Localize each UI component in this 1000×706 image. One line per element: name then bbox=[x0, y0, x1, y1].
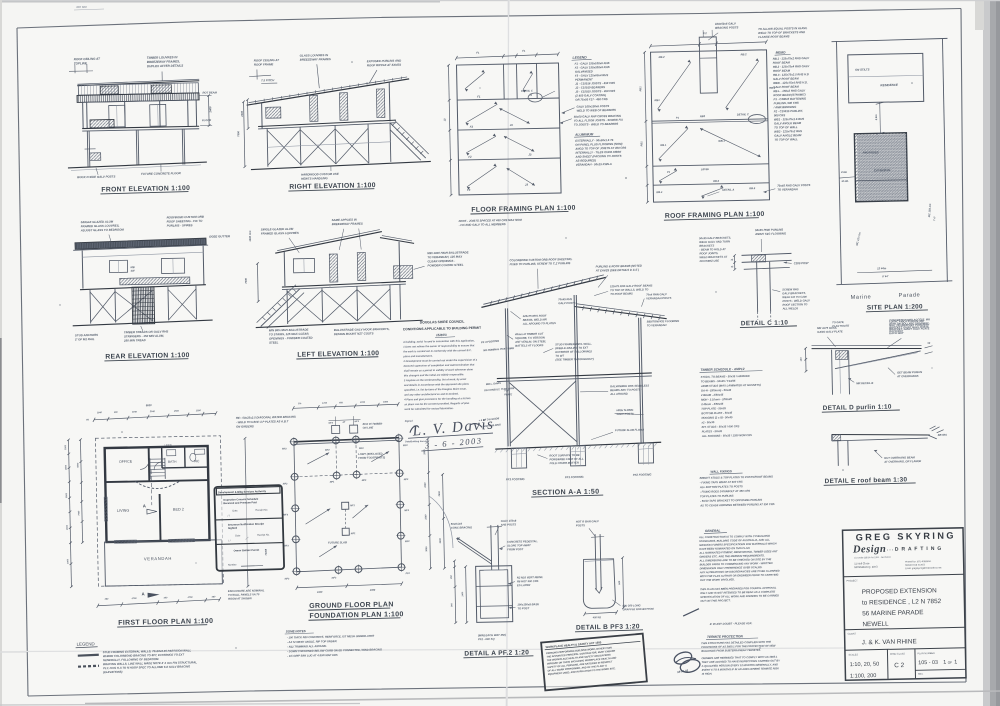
svg-text:F1: F1 bbox=[477, 95, 481, 99]
svg-text:DETAIL C: DETAIL C bbox=[737, 112, 749, 116]
svg-text:2400: 2400 bbox=[240, 110, 244, 117]
svg-text:BEAMS ARC TO POSTS -: BEAMS ARC TO POSTS - bbox=[610, 387, 642, 392]
svg-text:ROOF SECTION TO: ROOF SECTION TO bbox=[782, 302, 808, 307]
floor framing dimension line top bbox=[456, 54, 558, 58]
left elevation annotations bbox=[243, 215, 471, 360]
svg-text:AT OVERHANG, GR FLANGE: AT OVERHANG, GR FLANGE bbox=[883, 459, 921, 464]
svg-text:4750: 4750 bbox=[187, 596, 194, 599]
svg-text:F2: F2 bbox=[468, 155, 472, 159]
svg-text:ON STILTS: ON STILTS bbox=[855, 67, 870, 71]
svg-text:IS HIGH.: IS HIGH. bbox=[702, 672, 713, 676]
svg-text:MOSSMAN Q. 4873: MOSSMAN Q. 4873 bbox=[854, 565, 878, 569]
rear elevation walls bbox=[81, 251, 84, 289]
svg-text:RB1: RB1 bbox=[654, 98, 660, 102]
svg-text:MR DETAIL B: MR DETAIL B bbox=[856, 381, 873, 385]
svg-text:DUPLEX AFTER DETAILS: DUPLEX AFTER DETAILS bbox=[147, 64, 183, 69]
roof framing top projecting bay bbox=[699, 37, 717, 93]
scan specks bbox=[351, 61, 353, 63]
svg-text:TO BEAMS - 50x45 / F14/4: TO BEAMS - 50x45 / F14/45 bbox=[701, 379, 736, 384]
rear elevation annotations bbox=[71, 214, 234, 361]
fold crease vertical bbox=[507, 0, 509, 706]
svg-text:2.45mm - 4/50x45: 2.45mm - 4/50x45 bbox=[700, 402, 724, 406]
first floor plan curved wall bbox=[135, 481, 180, 489]
svg-text:WELD BRACKETS AT: WELD BRACKETS AT bbox=[699, 255, 727, 260]
svg-text:MF3: MF3 bbox=[362, 480, 367, 482]
detail A diagonal brace bbox=[457, 537, 491, 562]
left elevation skillion roof bbox=[275, 232, 382, 254]
svg-text:BATH: BATH bbox=[168, 460, 177, 464]
svg-text:10 MIL: 10 MIL bbox=[841, 180, 849, 183]
svg-text:REV.: REV. bbox=[918, 673, 924, 676]
svg-text:MF3: MF3 bbox=[283, 514, 288, 516]
detail D drawing bbox=[800, 319, 934, 413]
svg-text:1500: 1500 bbox=[65, 444, 67, 450]
svg-text:GALV POSTS: GALV POSTS bbox=[558, 301, 575, 305]
svg-text:SCALES: SCALES bbox=[848, 653, 858, 656]
ground floor plan bottom dims bbox=[297, 584, 402, 588]
ground floor plan leader arrows bbox=[307, 453, 329, 464]
detail A post bbox=[490, 525, 493, 570]
bottom paper edge shadow bbox=[85, 691, 1000, 704]
svg-text:PROPOSED: PROPOSED bbox=[863, 150, 879, 154]
svg-text:BREEZEWAY FRAMES: BREEZEWAY FRAMES bbox=[300, 57, 331, 62]
svg-text:3500: 3500 bbox=[65, 464, 67, 470]
left elevation upper walls bbox=[283, 252, 286, 286]
svg-text:FLOOR: FLOOR bbox=[202, 118, 211, 122]
svg-text:RB.1: RB.1 bbox=[660, 143, 667, 147]
svg-text:8600: 8600 bbox=[146, 403, 152, 407]
svg-text:WELD GALV AND TURN: WELD GALV AND TURN bbox=[699, 239, 730, 244]
svg-text:4000: 4000 bbox=[66, 524, 69, 531]
front elevation upper walls bbox=[82, 102, 85, 128]
svg-text:5.6m: 5.6m bbox=[874, 114, 878, 121]
svg-text:J. & K. VAN RHINE: J. & K. VAN RHINE bbox=[862, 638, 917, 646]
svg-text:CONC BRACING: CONC BRACING bbox=[451, 525, 472, 529]
svg-text:1900: 1900 bbox=[67, 558, 69, 564]
right elevation stair bbox=[390, 122, 426, 159]
svg-text:BED 2: BED 2 bbox=[173, 508, 184, 512]
svg-text:GENERAL: GENERAL bbox=[705, 529, 721, 533]
timber schedule bbox=[696, 366, 774, 507]
svg-text:A: A bbox=[143, 503, 146, 508]
svg-text:ROOF FRAME: ROOF FRAME bbox=[254, 62, 274, 66]
svg-text:2700: 2700 bbox=[359, 402, 366, 404]
svg-text:PF1 FOOTING: PF1 FOOTING bbox=[565, 475, 585, 479]
svg-text:MF3: MF3 bbox=[404, 510, 409, 512]
svg-text:7500: 7500 bbox=[236, 130, 240, 136]
svg-text:N2 N16 VERT REINF,: N2 N16 VERT REINF, bbox=[517, 575, 544, 580]
svg-text:Receipt No.: Receipt No. bbox=[255, 508, 268, 511]
svg-text:ROOF RIPPLE AT EAVES: ROOF RIPPLE AT EAVES bbox=[367, 63, 401, 68]
roof framing dim ticks bbox=[650, 42, 766, 46]
svg-text:VERANDAH - 50x19 KWILA: VERANDAH - 50x19 KWILA bbox=[576, 162, 612, 167]
fold crease vertical on sheet bbox=[507, 14, 509, 700]
rear elevation windows bbox=[109, 260, 127, 272]
front elevation louvre panels bbox=[100, 86, 118, 94]
svg-text:MGH - 3.10mm - 2/50x4: MGH - 3.10mm - 2/50x45 bbox=[701, 397, 732, 402]
svg-text:ROT BEAM: ROT BEAM bbox=[202, 90, 217, 94]
svg-text:TO TOP OF WALL: TO TOP OF WALL bbox=[774, 137, 798, 141]
svg-text:/ /: / / bbox=[228, 539, 231, 543]
front elevation roof band bbox=[77, 81, 199, 86]
ground floor plan centre posts bbox=[342, 502, 349, 509]
site plan bottom dim bbox=[857, 270, 932, 273]
roof framing internal arrows bbox=[657, 62, 692, 109]
detail B footing drawing bbox=[573, 518, 655, 632]
svg-text:INT. STUDS - 5: INT. STUDS - 50x35 / 600 CRS bbox=[702, 424, 740, 429]
svg-text:plans and manufactures.: plans and manufactures. bbox=[402, 355, 433, 359]
svg-text:1: 1 bbox=[954, 659, 957, 665]
rear elevation stair dark block bbox=[132, 287, 155, 324]
svg-text:DESIGN MOUNT NZT COSTS: DESIGN MOUNT NZT COSTS bbox=[334, 331, 374, 336]
first floor plan right dim line bbox=[245, 438, 248, 586]
svg-text:WB.1: WB.1 bbox=[718, 139, 725, 143]
svg-text:C200 POST: C200 POST bbox=[794, 261, 809, 265]
svg-text:STEEL: STEEL bbox=[269, 340, 279, 344]
svg-text:. . .: . . . bbox=[887, 546, 893, 551]
svg-text:ROOM AT SHOWN: ROOM AT SHOWN bbox=[228, 596, 252, 600]
svg-text:MF1: MF1 bbox=[330, 481, 335, 483]
svg-text:GANG GALV PLATE: GANG GALV PLATE bbox=[817, 329, 843, 334]
svg-text:ROOT SURFACE TO BE: ROOT SURFACE TO BE bbox=[549, 453, 580, 458]
right elevation ground line bbox=[251, 161, 431, 169]
left elevation right wing roof bbox=[380, 237, 414, 244]
detail C drawing bbox=[699, 227, 811, 328]
ground floor plan perimeter bbox=[294, 438, 399, 442]
svg-text:GA-H - (200mm) - 50x45: GA-H - (200mm) - 50x45 bbox=[701, 388, 732, 393]
svg-text:MF3: MF3 bbox=[284, 545, 289, 547]
svg-text:OR 75x50 F17 - 450 CRS: OR 75x50 F17 - 450 CRS bbox=[575, 97, 607, 102]
front elevation right dimension bbox=[200, 94, 212, 96]
svg-text:RB.5: RB.5 bbox=[749, 186, 756, 190]
svg-text:Signed: Signed bbox=[405, 420, 414, 423]
svg-text:A: A bbox=[142, 591, 145, 596]
right elevation skillion roof bbox=[246, 79, 409, 105]
svg-text:ALUMINIUM: ALUMINIUM bbox=[574, 132, 594, 136]
svg-text:NOGGINS (2 x 8) - 50x4: NOGGINS (2 x 8) - 50x45 bbox=[701, 415, 733, 420]
svg-text:POSTS - WELD GALV: POSTS - WELD GALV bbox=[782, 298, 810, 303]
svg-text:MF2: MF2 bbox=[325, 450, 330, 452]
svg-text:AT OVERHANGS: AT OVERHANGS bbox=[896, 374, 919, 378]
detail A dims bbox=[455, 561, 456, 623]
svg-text:J3: J3 bbox=[525, 183, 529, 187]
svg-text:125x75 RHS ROOF: 125x75 RHS ROOF bbox=[523, 314, 547, 318]
svg-text:TO WALL PANELS VA 70: TO WALL PANELS VA 70 bbox=[228, 592, 260, 597]
right elevation upper walls bbox=[261, 103, 264, 128]
svg-text:4750: 4750 bbox=[131, 597, 138, 600]
svg-text:MF2: MF2 bbox=[403, 445, 408, 447]
svg-text:GUT OVERHANG BEAM: GUT OVERHANG BEAM bbox=[884, 455, 915, 460]
svg-text:- BEAM TO HOLD AT: - BEAM TO HOLD AT bbox=[699, 247, 726, 252]
svg-text:450 SQ: 450 SQ bbox=[592, 616, 601, 619]
svg-text:- N12 TRIMMING ALL AROUND.: - N12 TRIMMING ALL AROUND. bbox=[287, 644, 327, 649]
top scan edge line bbox=[0, 0, 440, 3]
floor framing plan grid bbox=[441, 48, 576, 228]
svg-text:4W: 4W bbox=[130, 269, 136, 273]
svg-text:OFFICE: OFFICE bbox=[119, 460, 133, 464]
title block frame bbox=[843, 528, 966, 680]
detail D post bbox=[831, 350, 834, 395]
svg-text:BEAMS, WELD MR: BEAMS, WELD MR bbox=[523, 317, 547, 321]
svg-text:J1: J1 bbox=[510, 123, 514, 127]
svg-text:L'DRY (ENCLOSED: L'DRY (ENCLOSED bbox=[358, 452, 383, 456]
svg-text:Marine: Marine bbox=[851, 294, 872, 300]
svg-text:BRACKET, GIANT GALV PLATE: BRACKET, GIANT GALV PLATE bbox=[889, 326, 929, 331]
left elevation stair bbox=[260, 289, 301, 327]
svg-text:OUT ON THIS PROJECT.: OUT ON THIS PROJECT. bbox=[700, 598, 731, 603]
ground floor plan grid bbox=[280, 399, 447, 658]
svg-text:7500: 7500 bbox=[244, 277, 248, 283]
svg-text:PLATE: PLATE bbox=[504, 393, 512, 396]
first floor plan verandah bbox=[105, 540, 223, 586]
floor framing left dim bbox=[448, 65, 451, 195]
svg-text:4000: 4000 bbox=[369, 589, 376, 592]
svg-text:FOLD OTHER MATTER: FOLD OTHER MATTER bbox=[550, 461, 579, 466]
svg-text:MF2: MF2 bbox=[283, 483, 288, 485]
svg-text:TO VERANDAH: TO VERANDAH bbox=[647, 323, 667, 327]
svg-text:OUT THE WORK INVOLVED.: OUT THE WORK INVOLVED. bbox=[700, 577, 735, 582]
svg-text:WELD TO WEB OF BEARERS: WELD TO WEB OF BEARERS bbox=[577, 108, 616, 113]
svg-text:MF2: MF2 bbox=[405, 541, 410, 543]
svg-text:ALL AROUND: ALL AROUND bbox=[609, 392, 628, 396]
front elevation floor band bbox=[82, 126, 199, 128]
svg-text:POSTS: POSTS bbox=[576, 523, 585, 527]
svg-text:PF3 FOOTING: PF3 FOOTING bbox=[506, 477, 526, 481]
svg-text:1040: 1040 bbox=[132, 410, 138, 413]
svg-text:NEWELL: NEWELL bbox=[862, 621, 889, 629]
svg-text:45mm of TIMBER CUT: 45mm of TIMBER CUT bbox=[514, 332, 544, 337]
section A-A verandah roof bbox=[574, 305, 666, 321]
svg-text:6500: 6500 bbox=[77, 462, 79, 468]
section A-A roof bbox=[480, 255, 682, 498]
svg-text:7.5 PITCH: 7.5 PITCH bbox=[261, 78, 275, 82]
svg-text:TO VERANDAH: TO VERANDAH bbox=[777, 187, 799, 191]
svg-text:GET BEAM PURLIN: GET BEAM PURLIN bbox=[897, 370, 922, 375]
svg-text:50x8 DIA: 50x8 DIA bbox=[451, 522, 462, 526]
svg-text:1700: 1700 bbox=[322, 403, 328, 405]
svg-text:FUTURE CONCRETE FLOOR: FUTURE CONCRETE FLOOR bbox=[141, 171, 182, 176]
svg-text:WALL FIXINGS: WALL FIXINGS bbox=[710, 469, 731, 473]
section A-A footings bbox=[511, 448, 526, 468]
first floor plan stairs bbox=[150, 458, 165, 460]
front elevation annotations bbox=[66, 54, 220, 194]
left elevation ground line bbox=[256, 320, 423, 327]
svg-text:Receipt No.: Receipt No. bbox=[257, 533, 270, 536]
svg-text:4P: 4P bbox=[342, 421, 346, 424]
svg-text:R6 HOT 300 CRS: R6 HOT 300 CRS bbox=[517, 579, 539, 583]
svg-text:GALV 150x8: GALV 150x8 bbox=[501, 519, 517, 523]
front elevation ground line bbox=[68, 162, 207, 168]
svg-text:SLOPE TOP AWAY: SLOPE TOP AWAY bbox=[507, 543, 531, 547]
svg-text:RB.2: RB.2 bbox=[659, 55, 666, 59]
svg-text:LEVEL: LEVEL bbox=[701, 167, 710, 171]
ground floor plan footing circles bbox=[290, 438, 297, 445]
svg-text:MB: MB bbox=[131, 265, 135, 269]
svg-text:ALL AROUND TO PLATES: ALL AROUND TO PLATES bbox=[522, 321, 556, 326]
svg-text:FROM POST: FROM POST bbox=[507, 547, 523, 551]
svg-text:WELD FIX TO C200: WELD FIX TO C200 bbox=[782, 295, 807, 299]
building approval stamps bbox=[214, 485, 284, 571]
svg-text:5%: 5% bbox=[298, 403, 301, 405]
notes right of plan bbox=[228, 588, 265, 600]
site plan left dim bbox=[839, 177, 855, 178]
detail D dims bbox=[805, 348, 807, 371]
detail E end scribble bbox=[930, 426, 944, 433]
first floor plan partitions bbox=[148, 447, 151, 481]
svg-text:BENTONVICE FLOORING: BENTONVICE FLOORING bbox=[647, 319, 680, 324]
svg-text:ES LAYER: ES LAYER bbox=[517, 583, 530, 587]
svg-text:/ /: / / bbox=[228, 514, 231, 518]
svg-text:BRACING POSTS: BRACING POSTS bbox=[715, 25, 739, 29]
svg-text:CLIENT: CLIENT bbox=[848, 632, 857, 635]
svg-text:WIND CLASS: WIND CLASS bbox=[890, 653, 905, 656]
right elevation annotations bbox=[235, 51, 432, 192]
svg-text:250 MIN TREAD: 250 MIN TREAD bbox=[123, 338, 146, 342]
svg-text:2500: 2500 bbox=[425, 514, 427, 521]
svg-text:Date: Date bbox=[232, 509, 238, 512]
general notes bbox=[698, 528, 782, 676]
svg-text:105 - 03: 105 - 03 bbox=[918, 660, 938, 666]
svg-text:OGEE GUTTER: OGEE GUTTER bbox=[209, 234, 231, 238]
left scan edge bbox=[0, 0, 2, 706]
detail A footing box bbox=[476, 566, 513, 623]
svg-text:ROOF JOINTS,: ROOF JOINTS, bbox=[699, 251, 718, 255]
svg-text:100x150x8 BASE: 100x150x8 BASE bbox=[517, 602, 539, 606]
svg-text:LEGEND: LEGEND bbox=[77, 641, 95, 646]
svg-text:2.6m: 2.6m bbox=[840, 170, 848, 174]
svg-text:DETAIL A: DETAIL A bbox=[722, 188, 734, 192]
svg-text:8' 64': 8' 64' bbox=[882, 275, 889, 278]
svg-text:BREEZEWAY FRAMES: BREEZEWAY FRAMES bbox=[332, 222, 363, 227]
svg-text:72408: 72408 bbox=[265, 548, 268, 555]
first floor plan door arcs bbox=[140, 460, 149, 469]
svg-text:ROCK N SIDE GALV POSTS: ROCK N SIDE GALV POSTS bbox=[77, 174, 115, 179]
svg-text:Mobile 0418 312652: Mobile 0418 312652 bbox=[905, 564, 926, 566]
svg-text:70x45 RHS: 70x45 RHS bbox=[558, 297, 572, 301]
council conditions stamp text bbox=[402, 319, 517, 452]
fold crease horizontal on sheet bbox=[20, 648, 963, 652]
svg-text:GALVANIZED RHS SEAMLESS: GALVANIZED RHS SEAMLESS bbox=[610, 384, 649, 389]
svg-text:(ELEVATIONS): (ELEVATIONS) bbox=[103, 670, 122, 674]
svg-text:PROJECT: PROJECT bbox=[846, 579, 858, 582]
front elevation balcony rail bbox=[90, 119, 114, 127]
svg-text:2040: 2040 bbox=[149, 410, 156, 413]
leader curve to detail A bbox=[429, 496, 453, 548]
left elevation left dim bbox=[256, 264, 259, 302]
section A-A posts bbox=[505, 308, 508, 446]
left elevation floor line bbox=[282, 282, 406, 287]
svg-text:1: 1 bbox=[943, 660, 946, 666]
svg-text:MEMO: MEMO bbox=[776, 50, 787, 54]
svg-text:BOTTOM PLATE - 50x35: BOTTOM PLATE - 50x35 bbox=[701, 411, 732, 416]
svg-text:EXTERIOR OF FOLLOWING): EXTERIOR OF FOLLOWING) bbox=[555, 349, 591, 354]
svg-text:Number: Number bbox=[228, 563, 237, 566]
front elevation windows bbox=[109, 105, 125, 127]
svg-text:NO HORIZ USE: NO HORIZ USE bbox=[700, 259, 720, 263]
svg-text:SHS POSTS: SHS POSTS bbox=[501, 522, 517, 526]
svg-text:OF: OF bbox=[948, 661, 953, 665]
svg-text:5500: 5500 bbox=[66, 492, 68, 498]
first floor plan dashed roof outline bbox=[95, 436, 223, 586]
detail E drawing bbox=[823, 426, 948, 486]
svg-text:1840: 1840 bbox=[97, 411, 103, 414]
svg-text:PF2 - 600 SQ: PF2 - 600 SQ bbox=[478, 637, 495, 641]
floor framing legend bbox=[559, 55, 627, 167]
front elevation deck fascia band bbox=[77, 93, 199, 102]
svg-text:1:100, 200: 1:100, 200 bbox=[850, 673, 877, 680]
svg-text:TO TOP OF WALLS, WELD TO: TO TOP OF WALLS, WELD TO bbox=[610, 287, 649, 292]
svg-text:BATTELS AT FLOORS: BATTELS AT FLOORS bbox=[515, 343, 543, 348]
svg-text:1500 mm: 1500 mm bbox=[248, 230, 252, 242]
svg-text:1500: 1500 bbox=[174, 411, 180, 413]
svg-text:ON LINE: ON LINE bbox=[363, 425, 374, 429]
svg-text:4450: 4450 bbox=[316, 591, 323, 594]
svg-text:MF2: MF2 bbox=[359, 448, 364, 450]
approval signature scribble bbox=[672, 609, 702, 675]
section A-A ground line bbox=[495, 442, 661, 449]
svg-text:BOX IN TIMBER: BOX IN TIMBER bbox=[363, 422, 383, 426]
svg-text:HOT R BAR GALV: HOT R BAR GALV bbox=[576, 519, 599, 523]
svg-text:MF1: MF1 bbox=[351, 533, 356, 535]
rear elevation sill hatch band bbox=[120, 277, 190, 285]
svg-text:EXTENSION: EXTENSION bbox=[874, 168, 891, 172]
svg-text:1800: 1800 bbox=[383, 401, 389, 403]
svg-text:2' OF M2 RAIL: 2' OF M2 RAIL bbox=[74, 337, 95, 341]
svg-text:WC: WC bbox=[194, 459, 200, 463]
svg-text:RB1: RB1 bbox=[639, 86, 642, 92]
svg-text:RB.2: RB.2 bbox=[741, 52, 748, 56]
svg-text:TOP PLATES TO PURLINS: TOP PLATES TO PURLINS bbox=[700, 494, 734, 499]
svg-text:C 2: C 2 bbox=[894, 662, 905, 669]
left elevation window and louvres bbox=[293, 258, 314, 272]
site plan proposed extension bbox=[854, 133, 907, 202]
title block scales row bbox=[886, 649, 889, 679]
svg-text:POWDERED FREE OF ALL: POWDERED FREE OF ALL bbox=[549, 457, 584, 462]
left elevation right hatch panel bbox=[394, 265, 413, 278]
svg-text:CONCRETE PEDESTAL,: CONCRETE PEDESTAL, bbox=[507, 539, 538, 544]
svg-text:70x4 RHN GALV: 70x4 RHN GALV bbox=[646, 292, 667, 296]
svg-text:PURLINS - SPIRES: PURLINS - SPIRES bbox=[167, 223, 193, 228]
svg-text:LIVING: LIVING bbox=[117, 509, 130, 513]
svg-text:FUTURE SLAB: FUTURE SLAB bbox=[328, 540, 347, 544]
svg-text:GREG SKYRING: GREG SKYRING bbox=[856, 530, 956, 542]
svg-text:RB3: RB3 bbox=[700, 114, 706, 118]
site plan dim residence-extension bbox=[879, 102, 882, 133]
rear elevation ground line bbox=[73, 320, 213, 326]
svg-text:ON GIRDERS: ON GIRDERS bbox=[236, 424, 254, 428]
svg-text:PLAN NUMBER: PLAN NUMBER bbox=[917, 652, 935, 655]
svg-text:2600: 2600 bbox=[439, 491, 441, 498]
svg-text:7400: 7400 bbox=[77, 510, 80, 516]
svg-text:3000: 3000 bbox=[426, 546, 428, 552]
svg-text:2600: 2600 bbox=[424, 449, 426, 456]
detail B dims bbox=[623, 558, 624, 608]
section A-A mid floor bbox=[497, 373, 652, 379]
svg-text:RB.4: RB.4 bbox=[656, 190, 663, 194]
svg-text:Date: Date bbox=[235, 534, 241, 537]
svg-text:(SEE TIMBER THROUGHOUT): (SEE TIMBER THROUGHOUT) bbox=[555, 357, 593, 362]
svg-text:PLATES -: PLATES - 50x35 bbox=[702, 429, 723, 433]
svg-text:MF2: MF2 bbox=[282, 448, 287, 450]
svg-text:TO GATE,: TO GATE, bbox=[832, 320, 844, 324]
svg-text:TOPLINE: TOPLINE bbox=[74, 61, 88, 65]
svg-text:PF2 FOOTING: PF2 FOOTING bbox=[633, 472, 653, 476]
svg-text:D R A F T I N G: D R A F T I N G bbox=[895, 546, 942, 553]
svg-text:HEWTS HANDLING: HEWTS HANDLING bbox=[301, 176, 328, 181]
svg-text:HIGH N RING: HIGH N RING bbox=[616, 408, 633, 412]
svg-text:F3: F3 bbox=[467, 188, 471, 192]
svg-text:J3: J3 bbox=[528, 153, 532, 157]
